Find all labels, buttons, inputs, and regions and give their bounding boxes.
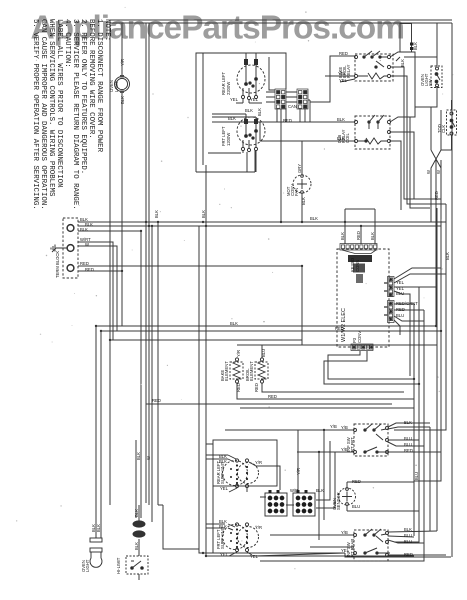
watermark AppliancePartsPros.com: [31, 10, 404, 47]
EOC right header 2: [384, 301, 394, 323]
wire BLK run 2: [78, 225, 441, 227]
wire eoc right fan 6: [394, 316, 424, 321]
svg-text:WHEN SERVICING CONTROLS. WIRIN: WHEN SERVICING CONTROLS. WIRING PROBLEMS: [47, 19, 55, 197]
svg-text:RT FRT: RT FRT: [350, 437, 355, 452]
terminal block TB: [63, 218, 78, 278]
wire P3 drop: [236, 99, 281, 222]
dual switch pair upper: [223, 455, 259, 492]
svg-text:BLK: BLK: [337, 117, 345, 122]
svg-text:RED: RED: [404, 552, 413, 557]
wire relayA right BLU1: [388, 439, 419, 441]
wire sw2 top feeds: [212, 114, 256, 119]
wire eoc top pin 2: [360, 226, 362, 244]
wire relayB right RED: [388, 554, 446, 556]
svg-text:RED: RED: [236, 383, 241, 392]
wire dlb feed 1: [212, 121, 355, 123]
dot grid connector G1: [265, 490, 287, 516]
svg-text:CONN: CONN: [355, 260, 360, 272]
wire bottom right runs: [345, 553, 451, 557]
svg-text:LABEL ALL WIRES PRIOR TO DISCO: LABEL ALL WIRES PRIOR TO DISCONNECTION: [55, 19, 63, 188]
wire eoc right fan 1: [394, 268, 441, 279]
EOC control dashed box: [337, 249, 389, 347]
svg-text:RED: RED: [352, 479, 361, 484]
svg-text:BLK: BLK: [301, 197, 306, 205]
wire bulb col ends: [100, 331, 102, 538]
svg-text:BLU: BLU: [261, 349, 266, 357]
svg-text:BLK: BLK: [404, 527, 412, 532]
svg-text:ELEMENT: ELEMENT: [249, 361, 254, 381]
svg-text:CAN CAUSE IMPROPER AND DANGERO: CAN CAUSE IMPROPER AND DANGEROUS OPERATI…: [39, 19, 47, 210]
EOC right header 1: [384, 277, 394, 297]
svg-text:RED: RED: [283, 118, 292, 123]
wire eoc right fan 3: [394, 287, 437, 289]
wire eoc right fan 4: [394, 303, 414, 305]
svg-text:BLU: BLU: [404, 442, 412, 447]
wire relay out 2: [390, 67, 441, 199]
wire bottom bus 2: [163, 505, 199, 549]
wire left border: [109, 20, 111, 505]
wire top border bus L2: [110, 22, 452, 24]
wire eoc bottom 1: [328, 351, 414, 379]
wire relayA right BLU2: [388, 442, 424, 446]
svg-text:1. DISCONNECT RANGE FROM POWER: 1. DISCONNECT RANGE FROM POWER: [95, 19, 103, 153]
svg-text:4. CAUTION:: 4. CAUTION:: [63, 19, 71, 68]
svg-text:RELAY: RELAY: [346, 64, 351, 78]
svg-text:BLU: BLU: [404, 436, 412, 441]
svg-text:BLK: BLK: [445, 252, 450, 260]
svg-text:Y/B: Y/B: [341, 425, 348, 430]
svg-text:SURF UNIT: SURF UNIT: [220, 526, 225, 549]
wire broil bottom: [262, 383, 404, 392]
svg-text:BLK: BLK: [230, 321, 238, 326]
wire oven light sw drop: [415, 57, 441, 150]
wire mid horiz 3: [95, 326, 97, 538]
wire vertical G: [206, 165, 414, 556]
svg-text:RED: RED: [396, 307, 405, 312]
bake element R1: [230, 358, 243, 383]
wire sensor bottom: [347, 505, 419, 511]
wire RED run 1: [78, 266, 302, 345]
svg-text:BLK: BLK: [400, 59, 405, 67]
svg-text:BLK: BLK: [201, 210, 206, 218]
svg-text:YEL: YEL: [250, 554, 259, 559]
wire bake feed bottom: [237, 383, 414, 399]
wire right border: [451, 23, 453, 557]
svg-text:BLK: BLK: [228, 116, 236, 121]
infinite switch SW1: [237, 53, 275, 100]
note text block (rotated 90deg): [31, 19, 111, 210]
svg-text:W: W: [436, 170, 441, 174]
svg-text:2. REFER ONLY TO FEATURES EQUI: 2. REFER ONLY TO FEATURES EQUIPPED.: [79, 19, 87, 174]
wire bottom cluster feeds: [206, 444, 225, 553]
svg-text:Y/R: Y/R: [120, 59, 125, 66]
svg-text:BLU: BLU: [404, 539, 412, 544]
hi-limit switch TOD: [126, 556, 148, 574]
oven sensor RTD: [339, 488, 356, 506]
wire eoc right fan 7: [394, 320, 400, 335]
svg-text:Y/R: Y/R: [236, 350, 241, 357]
svg-text:BLK: BLK: [154, 210, 159, 218]
hi-limit connector ovals: [133, 521, 145, 537]
svg-text:BLU: BLU: [352, 504, 360, 509]
wire long mid 2: [199, 226, 345, 553]
wire hi-limit lower: [138, 539, 140, 580]
wire inner bus B: [148, 23, 150, 505]
wire BLK run 3: [78, 222, 163, 522]
svg-text:LIGHT: LIGHT: [85, 559, 90, 572]
dual switch pair upper box: [213, 440, 277, 486]
svg-text:Y/B: Y/B: [330, 424, 337, 429]
wire top right BLK: [404, 23, 437, 57]
broil element R2: [255, 358, 268, 383]
wire relay out 3: [390, 76, 446, 204]
svg-text:BLK: BLK: [413, 42, 418, 50]
wire relayB left feeds: [253, 535, 354, 556]
surface switch box top: [196, 53, 286, 172]
svg-text:BLK: BLK: [370, 232, 375, 240]
svg-text:2200W: 2200W: [226, 82, 231, 95]
svg-text:BLU: BLU: [414, 472, 419, 480]
svg-text:RED: RED: [85, 267, 94, 272]
wire sw2 bottom link: [208, 151, 256, 172]
wire fan motor drop: [301, 141, 303, 175]
svg-text:RED: RED: [268, 394, 277, 399]
svg-text:CAN: CAN: [288, 104, 297, 109]
wire eoc bottom 2: [324, 351, 419, 384]
junction dots: [145, 221, 147, 223]
svg-text:BLU: BLU: [396, 291, 404, 296]
dual switch pair lower: [223, 523, 259, 556]
svg-text:BLK: BLK: [96, 524, 101, 532]
svg-text:BLK: BLK: [404, 420, 412, 425]
wire dlb out 2: [390, 132, 414, 210]
svg-text:W: W: [85, 242, 89, 247]
wire relayA right BLK: [388, 423, 430, 429]
dot grid connector G2: [293, 490, 315, 516]
svg-text:BLK: BLK: [80, 227, 88, 232]
wire broil top: [261, 345, 263, 358]
wire hi-limit col: [136, 440, 139, 522]
svg-text:GRY: GRY: [297, 164, 302, 173]
relay DLB K2: [354, 115, 390, 149]
svg-text:BLK: BLK: [257, 108, 262, 116]
svg-text:SURF UNIT: SURF UNIT: [220, 461, 225, 484]
connector P3 top: [266, 89, 286, 109]
svg-text:FAN: FAN: [294, 188, 299, 196]
svg-text:RED: RED: [434, 191, 439, 200]
svg-text:YEL: YEL: [250, 97, 259, 102]
svg-text:3. SERVICER PLEASE RETURN DIAG: 3. SERVICER PLEASE RETURN DIAGRAM TO RAN…: [71, 19, 79, 210]
svg-text:RED: RED: [254, 383, 259, 392]
svg-text:RED/GRNT: RED/GRNT: [396, 301, 418, 306]
EOC bottom header: [351, 344, 373, 351]
wire oven lamp drop: [121, 23, 123, 76]
wire RED run 2: [78, 271, 122, 326]
wire grid2 right: [316, 441, 335, 508]
svg-text:RT REAR: RT REAR: [350, 539, 355, 557]
infinite switch SW2: [237, 117, 265, 152]
wire BLK run 1: [78, 221, 446, 223]
svg-text:YEL: YEL: [396, 280, 405, 285]
wire oven lamp to RED terminal: [121, 92, 123, 271]
wire x junction: [431, 150, 441, 222]
wire right v 441: [414, 160, 441, 481]
svg-text:RED: RED: [404, 448, 413, 453]
svg-text:Y/B: Y/B: [341, 447, 348, 452]
svg-text:CLK: CLK: [441, 125, 446, 133]
svg-text:Y/R: Y/R: [296, 468, 301, 475]
wire k1 yel feed: [325, 76, 355, 82]
svg-text:W: W: [146, 456, 151, 460]
svg-text:YEL: YEL: [230, 97, 239, 102]
svg-text:BLK: BLK: [310, 216, 318, 221]
fuse box top right: [396, 24, 414, 62]
svg-text:Y/B: Y/B: [341, 530, 348, 535]
svg-text:CONV: CONV: [357, 331, 362, 343]
wire dlb feed 2: [260, 122, 355, 141]
wire k1 red feed: [310, 56, 355, 102]
svg-text:RED: RED: [339, 51, 348, 56]
wire sensor top: [347, 482, 414, 488]
wire right v419: [394, 289, 419, 542]
svg-text:BLK: BLK: [134, 509, 139, 517]
wire mid horiz 2: [101, 330, 441, 332]
svg-text:W/B: W/B: [290, 488, 298, 493]
svg-text:RED: RED: [80, 261, 89, 266]
wire right v424: [260, 310, 424, 561]
wire eoc right fan 3b: [394, 291, 410, 376]
svg-text:5. VERIFY PROPER OPERATION AFT: 5. VERIFY PROPER OPERATION AFTER SERVICI…: [31, 19, 39, 210]
oven light bulb: [90, 538, 102, 567]
wire eoc right fan 5: [394, 309, 424, 311]
clock TOD dashed box: [447, 110, 457, 135]
wire vertical box1: [202, 53, 204, 165]
svg-text:YEL: YEL: [220, 552, 229, 557]
wire relayA left feeds: [225, 430, 354, 540]
svg-text:BLK: BLK: [245, 108, 253, 113]
svg-text:ELEMENT: ELEMENT: [224, 361, 229, 381]
wire W run 2: [78, 246, 117, 331]
wire bake feed top: [237, 344, 437, 346]
EOC top pin header: [340, 244, 377, 251]
svg-text:BLK: BLK: [337, 136, 345, 141]
wire dlb out 1: [390, 117, 430, 208]
svg-text:Y/R: Y/R: [255, 460, 262, 465]
svg-text:BLU: BLU: [404, 533, 412, 538]
wire right v 446: [394, 204, 446, 531]
svg-text:1200W: 1200W: [226, 133, 231, 146]
wire inner bus A: [145, 23, 147, 503]
svg-text:BLK: BLK: [219, 524, 227, 529]
motor conv fan M1: [293, 175, 311, 194]
wire eoc right fan 2: [394, 274, 446, 283]
svg-text:BLU: BLU: [396, 313, 404, 318]
svg-text:TERM BLOCK: TERM BLOCK: [55, 251, 60, 278]
wire pair1 to grid: [206, 430, 298, 505]
wire relay out 1: [390, 52, 415, 117]
wire y408 run: [240, 407, 414, 409]
wire bottom bus 1: [206, 555, 414, 557]
svg-text:BLK: BLK: [340, 232, 345, 240]
wire relayB right 1: [388, 427, 437, 532]
wire mid horiz 4: [110, 339, 302, 341]
wire W run 1: [78, 242, 113, 340]
svg-text:BLK: BLK: [316, 488, 324, 493]
svg-text:BLK: BLK: [219, 459, 227, 464]
wire mid horiz 1: [96, 160, 436, 326]
wire right v414: [413, 304, 415, 536]
wire eoc top pin 3: [374, 209, 376, 244]
svg-text:RED: RED: [356, 231, 361, 240]
relay A dashed (upper right bottom): [354, 424, 391, 456]
wire fan motor down: [301, 193, 303, 222]
svg-text:BEFORE REMOVING WIRE COVER.: BEFORE REMOVING WIRE COVER.: [87, 19, 95, 139]
svg-text:RED: RED: [152, 398, 161, 403]
svg-text:BLK: BLK: [134, 542, 139, 550]
wire relayA right RED: [388, 451, 441, 453]
svg-text:SENSOR: SENSOR: [336, 492, 341, 510]
wire y404 run: [146, 403, 392, 405]
wire top border bus L1: [110, 19, 452, 21]
wire eoc top pin 1: [345, 209, 375, 244]
svg-text:YEL: YEL: [341, 548, 350, 553]
wire relayB right 2: [388, 536, 424, 543]
svg-text:BLK: BLK: [120, 96, 125, 104]
svg-text:COIL: COIL: [345, 133, 350, 143]
svg-text:RED: RED: [335, 326, 344, 331]
wire right cluster top: [441, 100, 452, 150]
svg-text:BLK: BLK: [136, 452, 141, 460]
relay B dashed (lower right bottom): [354, 529, 391, 561]
connector P4 top: [286, 89, 310, 122]
relay bake/broil K1: [354, 51, 393, 81]
lamp DSI oven lamp: [115, 75, 130, 93]
oven light switch S2: [431, 66, 442, 88]
svg-text:SW: SW: [428, 79, 433, 86]
ground: [51, 245, 67, 253]
svg-text:YEL: YEL: [220, 486, 229, 491]
svg-text:W: W: [426, 170, 431, 174]
EOC keyboard blob: [342, 250, 376, 283]
svg-text:HI-LIMIT: HI-LIMIT: [116, 557, 121, 574]
svg-text:LAMP: LAMP: [114, 80, 119, 92]
